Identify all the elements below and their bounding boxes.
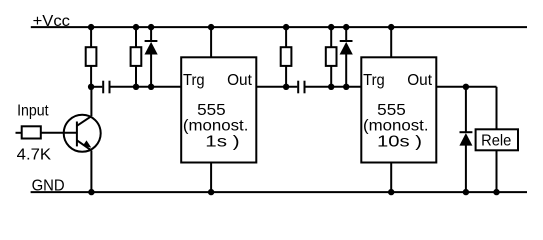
capacitor C2: [298, 81, 304, 94]
wire to relay top: [496, 87, 498, 130]
resistor R3: [281, 47, 292, 66]
wire base lead: [41, 132, 77, 134]
svg-text:Out: Out: [227, 72, 252, 89]
wire U2 GND: [390, 163, 392, 193]
svg-text:Out: Out: [407, 72, 432, 89]
wire R3 to node C: [285, 66, 287, 87]
wire Vcc to R3: [285, 27, 287, 47]
wire U2 Vcc: [390, 27, 392, 57]
junction U1 Vcc: [208, 24, 214, 30]
junction node A: [88, 84, 94, 90]
wire R1 to node A: [90, 66, 92, 87]
IC U1 555: [181, 57, 256, 162]
svg-text:1s ): 1s ): [205, 133, 239, 150]
IC U2 555: [361, 57, 436, 162]
junction U2 GND: [388, 189, 394, 195]
wire Vcc to R4: [330, 27, 332, 47]
junction U2 Vcc: [388, 24, 394, 30]
junction Out2-D3: [463, 84, 469, 90]
diode D2: [340, 27, 353, 87]
wire Out U2: [436, 86, 496, 88]
wire +Vcc rail: [31, 26, 527, 28]
resistor R5: [22, 126, 41, 138]
junction D1-Vcc: [148, 24, 154, 30]
diode D1: [145, 27, 158, 87]
svg-text:Input: Input: [17, 103, 49, 120]
junction D3-GND: [463, 189, 469, 195]
relay K1: [476, 129, 518, 150]
wire C1 to Trg U1: [110, 86, 181, 88]
wire relay to GND: [496, 150, 498, 192]
wire GND rail: [31, 191, 527, 193]
svg-text:Trg: Trg: [363, 72, 385, 89]
svg-text:10s ): 10s ): [377, 133, 422, 150]
junction R3-Vcc: [283, 24, 289, 30]
wire R4 to node D: [330, 66, 332, 87]
junction R4-node D: [328, 84, 334, 90]
svg-text:(monost.: (monost.: [363, 118, 429, 135]
transistor Q1: [64, 115, 101, 152]
junction relay-GND: [493, 189, 499, 195]
junction R1-Vcc: [88, 24, 94, 30]
wire Vcc to R2: [135, 27, 137, 47]
resistor R2: [131, 47, 142, 66]
wire input lead: [16, 132, 22, 134]
svg-text:Trg: Trg: [183, 72, 205, 89]
junction D1-node B: [148, 84, 154, 90]
diode D3: [459, 87, 472, 192]
wire emitter to GND: [90, 150, 92, 192]
capacitor C1: [103, 81, 109, 94]
junction U1 GND: [208, 189, 214, 195]
junction D2-Vcc: [343, 24, 349, 30]
junction node C: [283, 84, 289, 90]
svg-text:(monost.: (monost.: [183, 118, 249, 135]
resistor R1: [86, 47, 97, 66]
svg-text:4.7K: 4.7K: [17, 147, 52, 164]
wire Out U1 to C2: [256, 86, 297, 88]
junction R4-Vcc: [328, 24, 334, 30]
wire Vcc to R1: [90, 27, 92, 47]
wire C2 to Trg U2: [305, 86, 361, 88]
wire R2 to node B: [135, 66, 137, 87]
wire collector to node A: [90, 87, 92, 116]
wire U1 GND: [210, 163, 212, 193]
svg-text:Rele: Rele: [481, 132, 511, 149]
wire U1 Vcc: [210, 27, 212, 57]
junction D2-node D: [343, 84, 349, 90]
wire node A to C1: [91, 86, 102, 88]
junction emitter-GND: [88, 189, 94, 195]
junction R2-node B: [133, 84, 139, 90]
resistor R4: [326, 47, 337, 66]
junction R2-Vcc: [133, 24, 139, 30]
